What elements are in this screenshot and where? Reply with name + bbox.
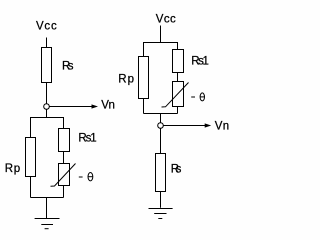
svg-text:Rp: Rp: [118, 74, 134, 86]
svg-text:Vcc: Vcc: [36, 21, 57, 33]
svg-text:Vcc: Vcc: [156, 13, 176, 25]
svg-text:Rs1: Rs1: [191, 56, 209, 68]
svg-text:Rs: Rs: [62, 61, 74, 73]
svg-text:Vn: Vn: [215, 121, 230, 133]
svg-text:Vn: Vn: [101, 100, 115, 112]
svg-text:Rs: Rs: [171, 163, 182, 175]
svg-text:Rs1: Rs1: [78, 133, 96, 145]
svg-text:Rp: Rp: [5, 163, 20, 175]
